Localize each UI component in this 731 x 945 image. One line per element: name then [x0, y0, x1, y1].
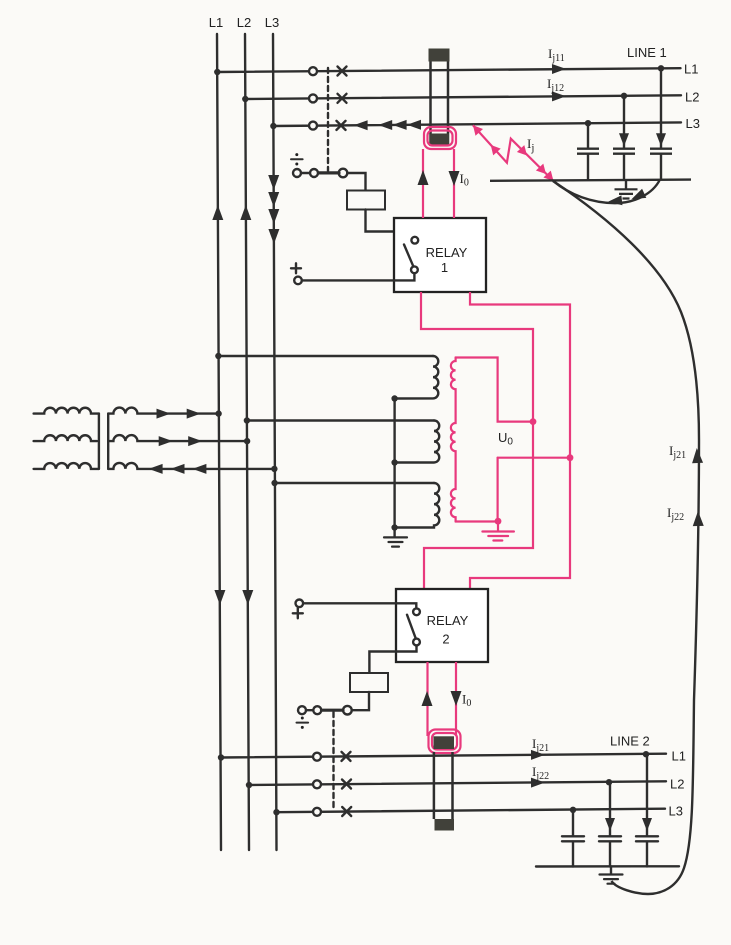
capacitor C12 line-to-ground — [613, 96, 635, 181]
current transformer CT2 core rails — [433, 752, 436, 819]
wire U0 winding bottom junction to relay loop right — [498, 457, 570, 459]
CT2 core bottom block — [435, 819, 455, 831]
closed switch bar LINE 2 — [322, 709, 344, 712]
wire between contacts LINE 2 — [306, 709, 313, 711]
wire relay 1 output left to relay 2 — [421, 292, 533, 589]
svg-text:L2: L2 — [685, 90, 699, 105]
VT neutral wire — [393, 399, 395, 538]
svg-text:I0: I0 — [462, 692, 471, 710]
svg-text:2: 2 — [442, 632, 449, 647]
arrow on earth arc right — [629, 189, 646, 204]
arrow I0 up on CT1 left lead — [418, 170, 429, 185]
capacitor C21 LINE2 — [562, 810, 584, 867]
wire busbar L2 vertical — [245, 34, 249, 850]
wire CT2 secondary right to relay 2 — [455, 662, 457, 736]
junction LINE2 line3 / capacitor C21 — [570, 807, 576, 813]
junction U0 winding bottom / ground — [495, 518, 502, 525]
junction line3 / capacitor C11 — [585, 120, 591, 126]
VT primary winding phase 2 — [395, 421, 440, 463]
CT2 secondary winding rounded rect inner — [432, 733, 457, 750]
disconnector contact line 2 — [309, 94, 317, 102]
ground symbol U0 — [482, 532, 514, 541]
svg-text:LINE 1: LINE 1 — [627, 45, 667, 60]
ground symbol LINE 1 — [615, 189, 638, 198]
breaker X line 3 — [337, 121, 346, 130]
svg-text:Ij12: Ij12 — [547, 76, 564, 94]
contact circles control switch LINE 2 — [298, 706, 306, 714]
svg-text:L3: L3 — [686, 116, 700, 131]
junction line2 / capacitor C12 — [621, 93, 627, 99]
junction VT neutral middle — [391, 459, 397, 465]
power transformer T1 secondary star bar — [107, 414, 109, 469]
wire feeder line 2 to LINE 1 — [245, 95, 681, 99]
arrows on T1 phase 1 output — [157, 409, 201, 419]
wire CT2 secondary left to relay 2 — [426, 662, 428, 736]
CT1 secondary winding rounded rect inner — [428, 131, 453, 146]
relay 2 switch blade — [407, 615, 416, 639]
wire relay 2 bottom contact to trip coil — [369, 645, 416, 673]
arrow down into C22 — [605, 818, 615, 831]
relay 1 contact top — [411, 237, 418, 244]
CT2 core top block — [434, 736, 455, 749]
junction LINE2 line1 / capacitor C23 — [643, 751, 649, 757]
power transformer T1 secondary winding phase 3 — [108, 463, 274, 469]
svg-text:1: 1 — [441, 260, 448, 275]
wire dashed breaker linkage LINE 2 — [332, 712, 334, 811]
junction busbar L1 / line 1 — [214, 69, 220, 75]
voltage transformer VT primary phase 1 tap — [218, 355, 433, 357]
junction busbar L2 / LINE2 line 2 — [246, 782, 252, 788]
wire U0 winding top to relay loop — [456, 358, 533, 422]
voltage transformer VT primary phase 3 tap — [275, 482, 434, 484]
junction busbar L2 / line 2 — [242, 96, 248, 102]
junction busbar L3 / VT phase 3 — [271, 480, 277, 486]
CT1 core bottom block — [430, 134, 450, 146]
trip coil box relay 2 — [350, 673, 388, 692]
voltage transformer VT primary phase 2 tap — [247, 419, 434, 421]
junction VT neutral bottom — [391, 524, 397, 530]
svg-text:L3: L3 — [265, 15, 279, 30]
arrows fault current on line 3 — [354, 120, 421, 130]
plus sign relay 1 — [291, 263, 301, 273]
junction line1 / capacitor C13 — [658, 65, 664, 71]
breaker X LINE2 line 3 — [342, 807, 351, 816]
arrow Ij21 on return curve — [691, 448, 703, 464]
wire busbar L3 vertical — [273, 34, 277, 850]
earthing switch symbol LINE 2 — [297, 717, 309, 729]
VT secondary open-delta winding U0 — [451, 358, 456, 522]
svg-text:LINE 2: LINE 2 — [610, 734, 650, 749]
relay 1 contact bottom — [411, 266, 418, 273]
svg-text:Ij: Ij — [527, 136, 534, 154]
arrow on earth arc left — [607, 195, 622, 206]
ground symbol VT neutral — [384, 537, 407, 546]
relay 2 contact bottom — [413, 639, 420, 646]
battery terminal circle relay 1 — [294, 277, 302, 285]
capacitor C11 line-to-ground — [577, 123, 599, 181]
closed switch bar LINE 1 — [319, 171, 340, 174]
arrows on T1 phase 3 return — [149, 464, 207, 474]
battery terminal circle relay 2 — [296, 600, 304, 608]
arrow current Ij12 — [552, 91, 566, 101]
junction VT neutral top — [391, 395, 397, 401]
ground symbol LINE 2 — [600, 875, 623, 884]
wire battery to relay 2 top contact — [303, 603, 417, 608]
wire feeder line 1 to LINE 2 — [221, 754, 666, 758]
arrow up on busbar L2 — [240, 205, 251, 220]
CT1 secondary winding rounded rect outer — [424, 127, 456, 149]
ground bus LINE 2 — [536, 865, 679, 868]
junction U0 top / relay loop left — [530, 418, 537, 425]
power transformer T1 primary star bar — [98, 414, 100, 469]
trip coil box relay 1 — [347, 191, 385, 210]
svg-text:RELAY: RELAY — [427, 613, 469, 628]
VT primary winding phase 1 — [395, 356, 439, 399]
power transformer T1 primary winding phase 1 — [34, 408, 99, 414]
disconnector contact line 3 — [309, 122, 317, 130]
svg-text:RELAY: RELAY — [426, 245, 468, 260]
ground bus LINE 1 — [490, 180, 691, 181]
breaker X LINE2 line 1 — [342, 752, 351, 761]
arrow Ij22 on return curve — [693, 511, 704, 526]
wire between contacts — [301, 172, 310, 174]
svg-text:L2: L2 — [670, 777, 684, 792]
arrow down into C13 — [656, 133, 666, 146]
junction T1 phase3 / busbar L3 — [271, 466, 277, 472]
power transformer T1 primary winding phase 2 — [34, 435, 97, 441]
power transformer T1 primary winding phase 3 — [34, 463, 99, 469]
capacitor C22 LINE2 — [599, 782, 621, 866]
junction U0 bottom / relay loop right — [567, 454, 574, 461]
junction busbar L1 / LINE2 line 1 — [218, 754, 224, 760]
arrow up on busbar L1 — [212, 205, 223, 220]
relay 2 contact top — [413, 608, 420, 615]
wire trip coil 2 to contact — [352, 692, 369, 710]
disconnector contact LINE2 line 1 — [313, 753, 321, 761]
junction T1 phase1 / busbar L1 — [215, 410, 221, 416]
arrow current Ij21 — [531, 750, 545, 760]
svg-text:L1: L1 — [209, 15, 223, 30]
breaker X LINE2 line 2 — [342, 780, 351, 789]
svg-text:Ij11: Ij11 — [548, 46, 565, 64]
arrows down on busbar L3 — [268, 175, 279, 244]
wire relay 1 output right to relay 2 — [470, 292, 570, 589]
junction busbar L2 / VT phase 2 — [244, 417, 250, 423]
svg-text:L3: L3 — [669, 804, 683, 819]
disconnector contact LINE2 line 3 — [313, 808, 321, 816]
wire bus to earth LINE 2 — [610, 867, 612, 875]
wire CT1 secondary right to relay 1 — [453, 149, 455, 218]
earthing switch symbol LINE 1 — [291, 153, 303, 165]
fault return path big curve — [553, 181, 699, 894]
wire bus to earth LINE 1 — [625, 181, 627, 189]
arrow down on busbar L1 lower — [214, 590, 225, 605]
wire feeder line 2 to LINE 2 — [249, 781, 666, 785]
fault lightning bolt Ij — [473, 125, 554, 181]
arrow current Ij22 — [531, 778, 545, 788]
relay 1 switch blade — [404, 245, 413, 267]
power transformer T1 secondary winding phase 2 — [108, 435, 247, 441]
svg-text:I0: I0 — [460, 171, 469, 189]
svg-text:U0: U0 — [498, 430, 513, 448]
wire busbar L1 vertical — [217, 34, 221, 850]
wire dashed breaker linkage LINE 1 — [327, 68, 329, 171]
breaker X line 1 — [338, 67, 347, 76]
disconnector contact line 1 — [309, 67, 317, 75]
svg-text:L1: L1 — [672, 749, 686, 764]
capacitor C13 line-to-ground — [650, 68, 672, 180]
junction busbar L1 / VT phase 1 — [215, 353, 221, 359]
wire contact to trip coil — [347, 173, 365, 191]
current transformer CT1 core rails — [429, 52, 432, 146]
arrow I0 down on CT1 right lead — [449, 171, 460, 186]
junction busbar L3 / line 3 — [270, 123, 276, 129]
arrow down into C23 — [642, 818, 652, 831]
CT1 core top block — [429, 49, 450, 62]
svg-text:Ij22: Ij22 — [667, 505, 684, 523]
junction busbar L3 / LINE2 line 3 — [273, 809, 279, 815]
wire U0 bottom vertical — [497, 458, 499, 521]
junction LINE2 line2 / capacitor C22 — [606, 779, 612, 785]
wire feeder line 3 to LINE 1 — [273, 122, 681, 126]
svg-text:L2: L2 — [237, 15, 251, 30]
plus sign relay 2 — [293, 608, 303, 618]
wire CT1 secondary left to relay 1 — [422, 149, 424, 218]
contact circles control switch LINE 1 — [293, 169, 301, 177]
arrow down on busbar L2 lower — [242, 590, 253, 605]
arrow down into C12 — [619, 133, 629, 146]
CT2 secondary winding rounded rect outer — [429, 730, 461, 754]
arrow current Ij11 — [552, 64, 566, 74]
arrows on T1 phase 2 output — [159, 436, 203, 446]
arrow I0 down on CT2 right lead — [451, 691, 462, 706]
capacitor C23 LINE2 — [636, 754, 658, 866]
wire feeder line 3 to LINE 2 — [277, 809, 666, 813]
wire trip coil to relay 1 contact — [366, 210, 415, 237]
wire relay 1 bottom contact to battery — [302, 273, 415, 280]
VT primary winding phase 3 — [395, 483, 440, 528]
breaker X line 2 — [338, 94, 347, 103]
wire U0 winding bottom — [456, 520, 498, 522]
earth return arc under LINE 1 ground — [553, 180, 660, 203]
wire U0 to ground — [497, 521, 499, 531]
svg-text:L1: L1 — [684, 62, 698, 77]
relay U1 box — [394, 218, 486, 292]
disconnector contact LINE2 line 2 — [313, 780, 321, 788]
svg-text:Ij21: Ij21 — [669, 443, 686, 461]
relay U2 box — [396, 589, 488, 662]
wire feeder line 1 to LINE 1 — [217, 68, 681, 72]
arrow I0 up on CT2 left lead — [422, 691, 433, 706]
power transformer T1 secondary winding phase 1 — [108, 408, 218, 414]
junction T1 phase2 / busbar L2 — [244, 438, 250, 444]
